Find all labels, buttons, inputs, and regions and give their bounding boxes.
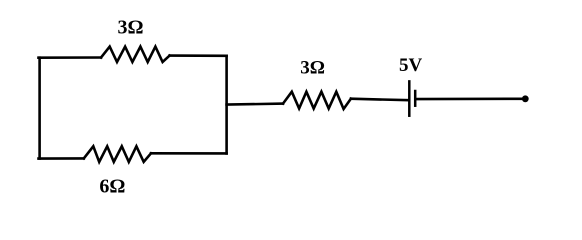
wire: battery to output terminal	[416, 98, 524, 101]
node: output terminal dot	[522, 95, 529, 102]
svg-text:6Ω: 6Ω	[99, 175, 125, 197]
svg-text:3Ω: 3Ω	[300, 58, 325, 79]
wire: bottom side, right segment	[151, 152, 227, 155]
resistor 3Ω (series)	[283, 92, 351, 109]
wire: left vertical side of parallel loop	[38, 58, 41, 159]
svg-text:3Ω: 3Ω	[117, 17, 143, 39]
wire: bottom side, left segment	[39, 157, 84, 160]
resistor 6Ω (bottom branch)	[84, 146, 151, 162]
wire: top side, left segment	[39, 56, 102, 59]
resistor 3Ω (top branch)	[101, 47, 170, 62]
wire: series resistor to battery positive plate	[351, 99, 408, 101]
battery 5V: long (positive) plate	[408, 81, 411, 115]
wire: top side, right segment	[170, 54, 227, 57]
svg-text:5V: 5V	[399, 55, 423, 76]
wire: junction node to series resistor	[227, 104, 283, 105]
battery 5V: short (negative) plate	[414, 91, 417, 106]
wire: right vertical side of parallel loop	[225, 56, 228, 154]
